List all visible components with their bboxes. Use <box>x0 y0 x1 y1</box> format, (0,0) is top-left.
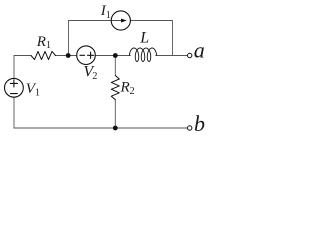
wire bottom row to terminal b <box>14 127 187 129</box>
V1 plus sign <box>10 80 17 87</box>
wire I1 to right, down to middle row <box>131 21 173 56</box>
svg-text:R1: R1 <box>36 34 51 51</box>
svg-text:V2: V2 <box>83 64 97 83</box>
terminal a open circle <box>188 53 192 57</box>
wire V2 to inductor through node <box>95 55 130 57</box>
resistor R1 zigzag <box>31 51 56 59</box>
svg-text:b: b <box>194 111 205 136</box>
wire inductor to terminal a <box>156 55 188 57</box>
wire middle row left: corner to R1 <box>14 55 31 57</box>
node dot junction 1 <box>66 53 71 58</box>
voltage source V2 circle <box>77 46 96 65</box>
node dot bottom junction <box>113 126 118 131</box>
voltage source V1 circle <box>5 78 24 97</box>
svg-text:L: L <box>139 30 149 47</box>
wire top loop: node up, across to I1 <box>69 21 112 56</box>
current source I1 circle <box>111 11 130 30</box>
svg-text:V1: V1 <box>26 81 40 98</box>
wire node to R2 <box>114 56 116 76</box>
svg-text:R2: R2 <box>120 80 135 97</box>
inductor L coil <box>129 48 156 62</box>
V2 minus sign <box>80 54 85 56</box>
wire left branch top: corner down to V1 <box>13 56 15 79</box>
resistor R2 zigzag <box>111 76 119 100</box>
I1 arrow <box>112 20 122 22</box>
wire left branch bottom: V1 down to bottom row <box>13 97 15 128</box>
node dot junction 2 <box>113 53 118 58</box>
wire R1 to V2 through node <box>56 55 77 57</box>
wire R2 to bottom node <box>114 100 116 128</box>
V2 plus sign <box>88 52 94 58</box>
svg-text:a: a <box>194 37 205 62</box>
terminal b open circle <box>188 126 192 130</box>
V1 minus sign <box>11 93 18 95</box>
svg-text:I1: I1 <box>100 3 111 21</box>
